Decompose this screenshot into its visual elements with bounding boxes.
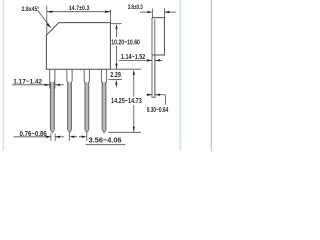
dimension 3.8±0.3 left tail and arrow xyxy=(140,11,152,13)
dimension 10.20~10.60 line lower segment xyxy=(116,46,118,69)
dimension 14.7±0.3 extension line right xyxy=(110,10,112,23)
dimension 3.8±0.3 right tail and arrow xyxy=(164,11,175,13)
dimension 10.20~10.60 top extension line xyxy=(111,23,122,25)
chamfer leader arrowhead xyxy=(46,23,51,27)
side view lead xyxy=(152,18,155,98)
left blue table border xyxy=(2,0,5,151)
dimension 14.25~14.73 bottom arrow xyxy=(133,127,135,132)
dimension 1.14~1.52 opposite arrow xyxy=(155,59,162,61)
dimension 0.30~0.64 arrows at side lead xyxy=(146,94,152,96)
svg-text:3.56~4.06: 3.56~4.06 xyxy=(89,136,122,145)
dimension 14.7±0.3 arrow right xyxy=(105,11,111,13)
dimension 2.29 lower extension line xyxy=(108,78,122,80)
right gray scrollbar edge xyxy=(210,0,212,151)
dimension 14.7±0.3 line xyxy=(47,11,111,13)
dimension 1.17~1.42 extension ticks xyxy=(49,82,51,89)
lead 2 shoulder xyxy=(67,70,72,83)
dimension 0.76~0.86 shelf and left arrow xyxy=(14,136,51,138)
chamfer leader line xyxy=(38,10,51,27)
dimension 3.56~4.06 extension ticks xyxy=(68,133,70,141)
dimension 10.20~10.60 top arrow xyxy=(115,24,117,29)
svg-text:2.29: 2.29 xyxy=(110,72,121,79)
right blue table border xyxy=(179,0,182,151)
svg-text:0.30~0.64: 0.30~0.64 xyxy=(147,107,169,114)
svg-text:2.8x45°: 2.8x45° xyxy=(22,5,40,13)
lead 1 shoulder xyxy=(50,70,55,83)
dimension 0.76~0.86 right arrow xyxy=(55,136,64,138)
dimension 3.56~4.06 underline xyxy=(86,144,126,146)
dimension 0.76~0.86 extension ticks xyxy=(50,134,52,142)
lead 3 shoulder xyxy=(84,70,89,83)
dimension 3.8±0.3 extension line right xyxy=(163,9,165,18)
lead 3 pin xyxy=(85,82,89,129)
dimension 3.8±0.3 extension line left xyxy=(151,9,153,18)
svg-text:14.7±0.3: 14.7±0.3 xyxy=(69,5,90,12)
dimension 14.25~14.73 bottom extension line xyxy=(109,131,141,133)
dimension 1.17~1.42 shelf and left arrow xyxy=(12,84,50,86)
dimension 3.56~4.06 inner arrows xyxy=(70,136,75,138)
side view body xyxy=(152,18,164,55)
dimension 14.25~14.73 top arrow xyxy=(133,70,135,75)
dimension 10.20~10.60 bottom arrow xyxy=(115,64,117,69)
dimension 14.25~14.73 line lower segment xyxy=(133,105,135,132)
dimension 1.14~1.52 shelf and right arrow xyxy=(119,59,152,61)
lead 2 pin xyxy=(68,82,72,129)
dimension 14.7±0.3 extension line left xyxy=(46,6,48,35)
dimension 14.7±0.3 arrow left xyxy=(47,11,53,13)
dimension 1.17~1.42 right arrow xyxy=(55,84,64,86)
lead 4 shoulder xyxy=(101,70,106,83)
side view lead seam line xyxy=(154,19,156,55)
dimension 0.30~0.64 leader hook xyxy=(164,95,166,105)
lead 4 pin xyxy=(102,82,106,129)
svg-text:10.20~10.60: 10.20~10.60 xyxy=(111,38,140,47)
lead 1 pin xyxy=(50,82,54,129)
body bottom extension line right xyxy=(111,68,141,70)
svg-text:14.25~14.73: 14.25~14.73 xyxy=(111,96,142,105)
body front view xyxy=(46,23,110,70)
dimension 2.29 bottom arrow pointing up xyxy=(115,80,117,85)
svg-text:3.8±0.3: 3.8±0.3 xyxy=(128,4,144,11)
dimension 14.25~14.73 line upper segment xyxy=(133,74,135,96)
